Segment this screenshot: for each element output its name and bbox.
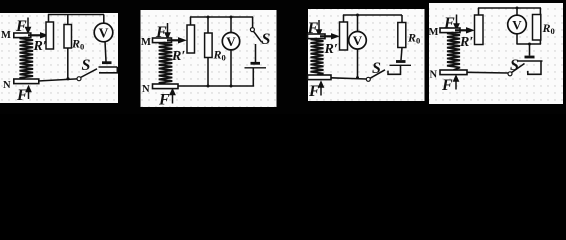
wire R' top lead (panel A)	[48, 15, 50, 23]
junction node top V (panel D)	[516, 7, 519, 10]
svg-text:S: S	[262, 31, 271, 48]
slider bar N (panel A)	[14, 79, 39, 84]
wire bottom bus (panel D)	[467, 71, 508, 74]
junction node bottom V (panel C)	[356, 76, 359, 79]
svg-text:S: S	[510, 57, 519, 74]
resistor R0 (panel D)	[533, 15, 541, 41]
wire R0 to battery (panel C)	[401, 48, 402, 61]
wire battery to switch contact (panel D)	[528, 61, 541, 74]
wire battery to switch contact (panel C)	[388, 65, 401, 74]
wire R' top lead (panel B)	[190, 17, 192, 25]
resistor R0 (panel B)	[205, 33, 213, 58]
wire R0 bottom lead (panel A)	[67, 48, 69, 79]
wire top right corner (panel B)	[252, 17, 254, 28]
wire voltmeter top lead (panel B)	[230, 17, 232, 33]
resistor R' (panel A)	[46, 22, 54, 49]
switch S pivot (panel B)	[250, 28, 254, 32]
svg-text:S: S	[82, 57, 91, 74]
wiper arrow (panel B)	[167, 38, 186, 43]
force arrow F up (panel C)	[318, 82, 323, 96]
wire voltmeter bottom lead (panel C)	[357, 49, 359, 78]
svg-text:M: M	[429, 27, 439, 38]
switch S blade (panel B)	[254, 31, 262, 42]
wiper arrow (panel C)	[320, 34, 339, 39]
wire bottom bus (panel C)	[331, 78, 366, 79]
wire voltmeter bottom lead (panel D)	[516, 34, 518, 44]
resistor R0 (panel A)	[64, 25, 72, 49]
resistor R' (panel C)	[340, 22, 348, 50]
svg-text:V: V	[226, 34, 236, 49]
force arrow F up (panel B)	[170, 89, 175, 104]
svg-text:M: M	[1, 30, 11, 41]
wiper arrow (panel A)	[28, 33, 48, 38]
panel B background	[141, 10, 277, 107]
wire battery to switch contact (panel A)	[99, 67, 117, 73]
voltmeter V (panel A)	[94, 23, 113, 42]
slider bar M (panel D)	[440, 28, 460, 33]
wire top bus (panel A)	[48, 14, 104, 16]
battery (panel C)	[390, 62, 412, 66]
force arrow F up (panel A)	[26, 86, 31, 99]
svg-text:R′: R′	[459, 35, 473, 50]
spring resistance wire MN (panel A)	[20, 38, 34, 80]
wire voltmeter top lead (panel C)	[357, 15, 359, 32]
wire parallel join bus (panel D)	[516, 43, 541, 45]
voltmeter V (panel C)	[349, 32, 367, 50]
junction node top V (panel C)	[356, 14, 359, 17]
slider bar M (panel A)	[14, 33, 31, 38]
svg-text:R′: R′	[171, 49, 185, 64]
switch S blade (panel C)	[370, 70, 385, 79]
switch S blade (panel A)	[81, 69, 98, 78]
svg-text:F: F	[16, 87, 28, 104]
slider bar N (panel D)	[440, 70, 467, 75]
wire switch to battery (panel B)	[255, 44, 257, 62]
junction node bottom V (panel B)	[230, 85, 233, 88]
switch S pivot (panel D)	[508, 72, 512, 76]
svg-text:N: N	[430, 70, 438, 81]
battery (panel D)	[518, 57, 543, 61]
spring resistance wire MN (panel B)	[159, 43, 173, 85]
slider bar M (panel B)	[153, 38, 172, 43]
junction node join (panel D)	[528, 43, 531, 46]
svg-text:R′: R′	[33, 39, 47, 54]
resistor R' (panel D)	[475, 15, 484, 45]
svg-text:F: F	[158, 92, 170, 109]
wire R0 bottom lead (panel B)	[207, 58, 209, 87]
wire R0 top lead (panel D)	[539, 8, 541, 15]
svg-text:V: V	[512, 17, 522, 32]
svg-text:V: V	[353, 33, 363, 48]
svg-text:N: N	[142, 84, 150, 95]
force arrow F down (panel C)	[316, 20, 321, 36]
svg-text:N: N	[3, 80, 11, 91]
slider bar M (panel C)	[308, 34, 326, 39]
junction node (panel A)	[66, 77, 69, 80]
wire battery to bottom bus (panel B)	[178, 68, 253, 86]
force arrow F down (panel A)	[25, 18, 30, 34]
junction node top R0 (panel B)	[207, 16, 210, 19]
wire voltmeter to battery (panel A)	[105, 41, 106, 61]
slider bar N (panel C)	[308, 75, 332, 80]
junction node bottom R0 (panel B)	[207, 85, 210, 88]
switch S pivot (panel C)	[366, 77, 370, 81]
wire R0 top lead (panel B)	[207, 17, 209, 33]
battery (panel B)	[245, 63, 267, 68]
wire bottom bus (panel A)	[38, 79, 77, 81]
resistor R0 (panel C)	[398, 23, 406, 48]
wire R0 bottom lead (panel D)	[539, 40, 541, 44]
resistor R' (panel B)	[187, 25, 195, 53]
svg-text:M: M	[141, 37, 151, 48]
switch S blade (panel D)	[512, 64, 525, 73]
svg-text:V: V	[99, 26, 109, 41]
svg-text:R′: R′	[324, 42, 338, 57]
force arrow F down (panel D)	[454, 15, 459, 30]
force arrow F down (panel B)	[165, 23, 170, 39]
force arrow F up (panel D)	[453, 76, 458, 90]
voltmeter V (panel D)	[508, 15, 527, 34]
svg-text:F: F	[308, 83, 320, 100]
wire R' top lead (panel C)	[343, 15, 345, 22]
voltmeter V (panel B)	[222, 33, 239, 50]
panel A background	[0, 13, 118, 103]
slider bar N (panel B)	[153, 84, 179, 89]
panel C background	[308, 9, 425, 101]
panel D background	[429, 3, 563, 104]
switch S pivot (panel A)	[77, 77, 81, 81]
spring resistance wire MN (panel C)	[311, 39, 324, 75]
wire R0 top lead (panel C)	[401, 15, 403, 23]
wire voltmeter bottom lead (panel B)	[230, 50, 232, 86]
wire join to battery (panel D)	[529, 44, 531, 56]
wire top bus (panel C)	[343, 14, 402, 16]
junction node top V (panel B)	[230, 16, 233, 19]
wire R0 top lead (panel A)	[67, 15, 69, 25]
wire top bus (panel D)	[478, 7, 541, 9]
battery (panel A)	[99, 63, 118, 67]
svg-text:F: F	[441, 77, 453, 94]
wiper arrow (panel D)	[455, 28, 474, 33]
wire voltmeter top lead (panel D)	[516, 8, 518, 15]
wire top bus (panel B)	[190, 16, 253, 18]
wire voltmeter top lead (panel A)	[103, 15, 105, 25]
wire R' top lead (panel D)	[478, 8, 480, 15]
spring resistance wire MN (panel D)	[447, 33, 460, 71]
